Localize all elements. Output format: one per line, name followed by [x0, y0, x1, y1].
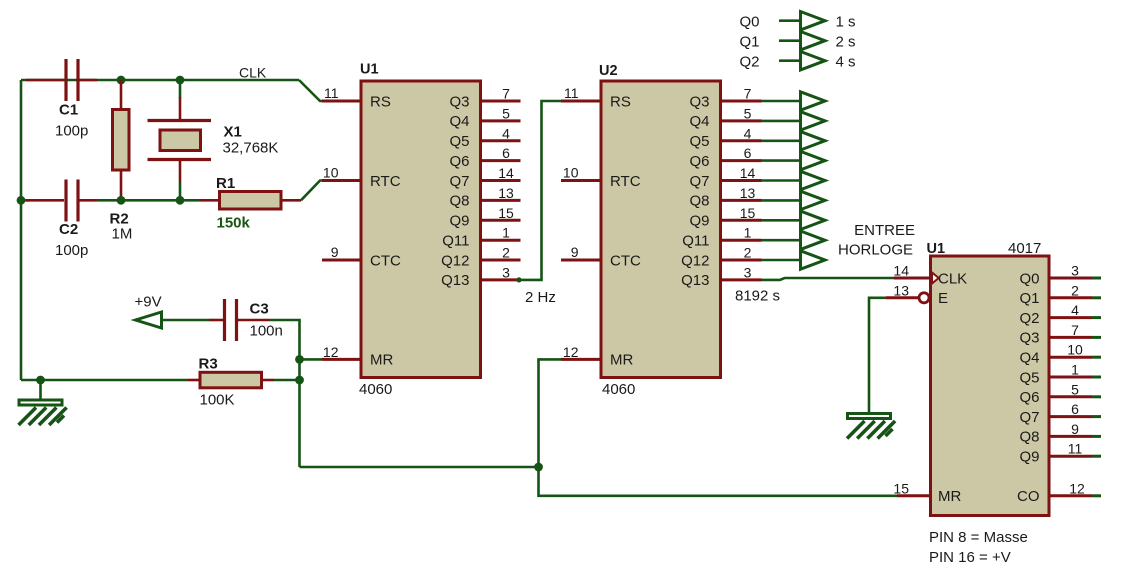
svg-text:Q13: Q13 [441, 272, 469, 289]
svg-text:9: 9 [571, 244, 579, 260]
pin CTC U2 [561, 259, 601, 262]
svg-text:Q5: Q5 [449, 133, 469, 150]
svg-text:Q6: Q6 [449, 153, 469, 170]
wire R2 top lead [120, 80, 123, 110]
wire C3 to MR vertical [269, 320, 300, 467]
svg-text:32,768K: 32,768K [223, 140, 279, 157]
wire X1 bottom lead [179, 181, 182, 200]
pin Q out U1 #15 [481, 219, 521, 222]
pin Q8 4017 [1049, 435, 1092, 438]
svg-text:U1: U1 [360, 62, 379, 78]
pin RS U1 [322, 100, 361, 103]
svg-text:Q4: Q4 [1019, 350, 1039, 367]
svg-text:Q9: Q9 [689, 213, 709, 230]
svg-text:11: 11 [1068, 441, 1083, 457]
svg-text:X1: X1 [224, 124, 242, 141]
pin Q out U2 #13 [721, 199, 762, 202]
svg-text:100p: 100p [55, 242, 88, 259]
svg-text:4: 4 [1071, 302, 1079, 318]
junction left bus / C2 row [17, 196, 26, 205]
svg-text:4060: 4060 [602, 381, 635, 398]
svg-text:14: 14 [893, 263, 909, 279]
svg-text:+9V: +9V [135, 294, 162, 311]
svg-text:13: 13 [893, 282, 909, 298]
wire C3 left lead [209, 319, 223, 322]
IC U1 4060 body [361, 81, 481, 378]
svg-text:7: 7 [1071, 322, 1079, 338]
pin Q out U2 #15 [721, 219, 762, 222]
wire diagonal to pin 10 [301, 181, 326, 201]
wire to U1 MR [300, 358, 323, 361]
svg-text:CTC: CTC [610, 252, 641, 269]
junction bottom bus / R2 [117, 196, 126, 205]
pin RTC U1 [322, 179, 361, 182]
svg-text:Q6: Q6 [689, 153, 709, 170]
wire X1 top lead [179, 80, 182, 98]
svg-text:CLK: CLK [239, 65, 267, 81]
svg-text:C1: C1 [59, 102, 78, 119]
resistor R1 [220, 192, 282, 210]
buffer Q0 [801, 12, 826, 30]
wire stub Q6 4017 [1092, 395, 1101, 398]
pin Q out U2 #6 [721, 159, 762, 162]
svg-text:6: 6 [744, 145, 752, 161]
wire up to U2 MR [539, 359, 562, 467]
svg-text:5: 5 [1071, 381, 1079, 397]
pin RTC U2 [561, 179, 601, 182]
svg-text:1: 1 [744, 225, 752, 241]
wire stub Q4 4017 [1092, 356, 1101, 359]
wire +9V to C3 [162, 319, 210, 322]
svg-text:Q2: Q2 [740, 54, 760, 71]
pin Q out U1 #7 [481, 100, 521, 103]
wire to R1 [180, 199, 200, 202]
svg-text:CO: CO [1017, 488, 1040, 505]
pin Q out U2 #14 [721, 179, 762, 182]
buffer row 4 [801, 171, 826, 189]
wire stub Q9 4017 [1092, 455, 1101, 458]
junction MR U1 [295, 355, 304, 364]
svg-text:15: 15 [498, 205, 514, 221]
buffer row 5 [801, 191, 826, 209]
wire Q13 to U2 RS [521, 101, 562, 280]
svg-text:4 s: 4 s [836, 54, 856, 71]
svg-text:Q12: Q12 [441, 252, 469, 269]
svg-text:Q7: Q7 [1019, 409, 1039, 426]
pin Q2 4017 [1049, 316, 1092, 319]
svg-text:Q8: Q8 [449, 193, 469, 210]
pin Q6 4017 [1049, 395, 1092, 398]
wire to buffer row 6 [762, 219, 801, 222]
svg-text:Q9: Q9 [449, 213, 469, 230]
pin Q out U2 #4 [721, 139, 762, 142]
wire stub Q2 4017 [1092, 316, 1101, 319]
svg-text:1M: 1M [112, 226, 133, 243]
svg-text:Q8: Q8 [689, 193, 709, 210]
buffer Q1 [801, 32, 826, 50]
svg-text:14: 14 [740, 165, 756, 181]
pin Q out U1 #2 [481, 259, 521, 262]
svg-text:15: 15 [893, 480, 909, 496]
svg-text:Q4: Q4 [689, 113, 709, 130]
svg-text:9: 9 [331, 244, 339, 260]
svg-text:2: 2 [1071, 282, 1079, 298]
svg-text:RS: RS [370, 93, 391, 110]
pin CLK 4017 [894, 277, 931, 280]
svg-text:13: 13 [498, 185, 514, 201]
pin CO 4017 [1049, 494, 1092, 497]
svg-text:RS: RS [610, 93, 631, 110]
svg-text:100n: 100n [250, 323, 283, 340]
wire to buffer row 3 [762, 159, 801, 162]
wire end nub Q13 [516, 277, 521, 282]
svg-text:Q1: Q1 [1019, 290, 1039, 307]
junction top bus / X1 [176, 76, 185, 85]
wire stub Q8 4017 [1092, 435, 1101, 438]
wire CLK top bus [21, 79, 299, 82]
wire R2 bottom lead [120, 170, 123, 200]
svg-text:150k: 150k [217, 215, 251, 232]
svg-text:12: 12 [563, 344, 579, 360]
wire stub CO 4017 [1092, 494, 1101, 497]
clock edge marker [932, 273, 939, 284]
svg-text:7: 7 [744, 86, 752, 102]
wire Q2 buffer input [779, 59, 800, 62]
svg-text:100K: 100K [200, 392, 235, 409]
wire C1 right lead [78, 79, 97, 82]
ground left [19, 400, 67, 425]
svg-text:100p: 100p [55, 123, 88, 140]
wire left vertical [20, 80, 23, 380]
svg-text:4: 4 [502, 125, 510, 141]
svg-text:Q7: Q7 [689, 173, 709, 190]
svg-text:Q3: Q3 [689, 93, 709, 110]
buffer row 1 [801, 112, 826, 130]
svg-text:3: 3 [502, 264, 510, 280]
pin Q0 4017 [1049, 277, 1092, 280]
pin Q7 4017 [1049, 415, 1092, 418]
svg-text:Q11: Q11 [442, 233, 469, 250]
wire E to ground [869, 298, 886, 414]
wire stub Q3 4017 [1092, 336, 1101, 339]
pin Q1 4017 [1049, 296, 1092, 299]
pin MR U1 [322, 358, 361, 361]
svg-text:Q5: Q5 [689, 133, 709, 150]
wire diagonal to pin 11 [299, 80, 326, 101]
wire C2 right lead [78, 199, 97, 202]
svg-text:2: 2 [744, 245, 752, 261]
wire R3 to vertical [274, 379, 300, 382]
svg-text:2: 2 [502, 245, 510, 261]
svg-text:3: 3 [744, 264, 752, 280]
wire to buffer row 5 [762, 199, 801, 202]
wire bottom bus [97, 199, 180, 202]
buffer row 8 [801, 251, 826, 269]
capacitor C2 [66, 180, 78, 222]
wire C3 right lead [237, 319, 270, 322]
pin E 4017 [886, 296, 919, 299]
svg-text:R3: R3 [199, 356, 218, 373]
wire stub Q7 4017 [1092, 415, 1101, 418]
pin Q out U2 #7 [721, 100, 762, 103]
svg-text:12: 12 [323, 344, 339, 360]
svg-text:Q3: Q3 [1019, 330, 1039, 347]
svg-text:4017: 4017 [1008, 240, 1041, 257]
svg-text:Q0: Q0 [1019, 270, 1039, 287]
wire stub Q0 4017 [1092, 277, 1101, 280]
svg-text:14: 14 [498, 165, 514, 181]
U1 pin names left [370, 93, 401, 368]
4017 pin names right [1017, 270, 1040, 505]
capacitor C1 [66, 59, 78, 101]
wire to buffer row 0 [762, 100, 801, 103]
pin X1 top [179, 97, 182, 121]
U2 pin names left [610, 93, 641, 368]
svg-text:13: 13 [740, 185, 756, 201]
buffer row 2 [801, 132, 826, 150]
svg-text:12: 12 [1069, 480, 1085, 496]
svg-text:2 Hz: 2 Hz [525, 289, 556, 306]
pin Q5 4017 [1049, 376, 1092, 379]
svg-text:Q6: Q6 [1019, 389, 1039, 406]
wire down to 4017 MR [539, 467, 898, 496]
svg-text:4: 4 [744, 125, 752, 141]
svg-text:PIN 16 = +V: PIN 16 = +V [929, 549, 1011, 566]
svg-text:15: 15 [740, 205, 756, 221]
svg-text:Q5: Q5 [1019, 369, 1039, 386]
svg-text:RTC: RTC [610, 173, 641, 190]
svg-text:2 s: 2 s [836, 34, 856, 51]
svg-text:MR: MR [938, 488, 961, 505]
svg-text:Q11: Q11 [682, 233, 709, 250]
svg-text:1: 1 [1071, 362, 1079, 378]
IC U1 4017 body [931, 256, 1050, 516]
pin Q3 4017 [1049, 336, 1092, 339]
pin Q out U1 #6 [481, 159, 521, 162]
inverter bubble E [919, 293, 929, 303]
4017 pin names left [938, 270, 967, 505]
svg-text:U2: U2 [599, 63, 618, 79]
svg-text:9: 9 [1071, 421, 1079, 437]
pin X1 bottom [179, 160, 182, 182]
resistor R3 [200, 372, 262, 388]
svg-text:Q9: Q9 [1019, 449, 1039, 466]
wire to buffer row 4 [762, 179, 801, 182]
pin Q out U1 #14 [481, 179, 521, 182]
svg-text:E: E [938, 290, 948, 307]
buffer row 3 [801, 151, 826, 169]
ground right [847, 414, 895, 439]
pin Q out U2 #2 [721, 259, 762, 262]
pin Q4 4017 [1049, 356, 1092, 359]
svg-text:RTC: RTC [370, 173, 401, 190]
svg-text:3: 3 [1071, 263, 1079, 279]
wire to buffer row 1 [762, 120, 801, 123]
svg-text:1: 1 [502, 225, 510, 241]
svg-text:ENTREE: ENTREE [854, 222, 915, 239]
svg-text:PIN 8 = Masse: PIN 8 = Masse [929, 529, 1028, 546]
pin Q out U1 #1 [481, 239, 521, 242]
svg-text:R1: R1 [216, 175, 235, 192]
pin Q out U1 #5 [481, 119, 521, 122]
svg-text:HORLOGE: HORLOGE [838, 242, 913, 259]
wire to buffer row 7 [762, 239, 801, 242]
wire ground drop [39, 380, 42, 400]
svg-text:5: 5 [744, 105, 752, 121]
wire R1 right lead [281, 199, 301, 202]
svg-text:Q0: Q0 [740, 14, 760, 31]
svg-text:Q4: Q4 [449, 113, 469, 130]
power symbol +9V [136, 312, 162, 328]
buffer row 0 [801, 92, 826, 110]
pin MR U2 [561, 358, 601, 361]
IC U2 4060 body [601, 81, 721, 378]
wire MR bus horizontal [300, 466, 539, 469]
wire R1 left lead [200, 199, 220, 202]
pin CTC U1 [322, 259, 361, 262]
pin Q out U2 #1 [721, 239, 762, 242]
wire at C2 junction [21, 199, 29, 202]
svg-text:Q1: Q1 [740, 34, 760, 51]
pin Q out U1 #3 [481, 278, 521, 281]
svg-text:1 s: 1 s [836, 14, 856, 31]
svg-text:CTC: CTC [370, 252, 401, 269]
svg-text:10: 10 [563, 165, 579, 181]
wire ground bus to R3 [21, 379, 188, 382]
U1 pin names right [441, 93, 469, 289]
junction top bus / R2 [117, 76, 126, 85]
U2 pin names right [681, 93, 709, 289]
crystal X1 [148, 121, 212, 160]
capacitor C3 [225, 299, 237, 341]
wire C2 left lead [26, 199, 64, 202]
svg-text:11: 11 [564, 85, 579, 101]
svg-text:4060: 4060 [359, 381, 392, 398]
svg-text:6: 6 [1071, 401, 1079, 417]
svg-text:CLK: CLK [938, 270, 967, 287]
wire Q1 buffer input [779, 39, 800, 42]
junction bottom bus / X1 [176, 196, 185, 205]
pin Q out U1 #4 [481, 139, 521, 142]
pin Q9 4017 [1049, 455, 1092, 458]
pin Q out U2 #5 [721, 119, 762, 122]
svg-text:10: 10 [1067, 342, 1083, 358]
svg-text:10: 10 [323, 165, 339, 181]
svg-text:Q13: Q13 [681, 272, 709, 289]
pin Q out U2 #3 [721, 278, 762, 281]
svg-text:Q8: Q8 [1019, 429, 1039, 446]
wire to buffer row 8 [762, 259, 801, 262]
buffer row 7 [801, 231, 826, 249]
svg-text:Q3: Q3 [449, 93, 469, 110]
pin MR 4017 [897, 494, 931, 497]
svg-text:U1: U1 [927, 241, 946, 257]
svg-text:11: 11 [324, 85, 339, 101]
svg-text:C3: C3 [250, 301, 269, 318]
wire C1 left lead [26, 79, 64, 82]
junction R3 / vertical [295, 376, 304, 385]
svg-text:Q12: Q12 [681, 252, 709, 269]
svg-text:7: 7 [502, 86, 510, 102]
svg-text:5: 5 [502, 105, 510, 121]
svg-text:Q2: Q2 [1019, 310, 1039, 327]
svg-text:C2: C2 [59, 221, 78, 238]
pin Q out U1 #13 [481, 199, 521, 202]
wire Q0 buffer input [779, 19, 800, 22]
resistor R2 [113, 110, 130, 171]
pin RS U2 [561, 100, 601, 103]
junction ground tap [36, 376, 45, 385]
svg-text:MR: MR [610, 352, 633, 369]
wire stub Q1 4017 [1092, 296, 1101, 299]
wire Q13 U2 to 4017 CLK [762, 278, 896, 280]
buffer row 6 [801, 211, 826, 229]
svg-text:MR: MR [370, 352, 393, 369]
svg-text:Q7: Q7 [449, 173, 469, 190]
svg-text:8192 s: 8192 s [735, 288, 780, 305]
svg-text:6: 6 [502, 145, 510, 161]
wire R3 left lead [188, 379, 200, 382]
wire to buffer row 2 [762, 140, 801, 143]
wire R3 right lead [262, 379, 275, 382]
wire stub Q5 4017 [1092, 376, 1101, 379]
junction MR bus [534, 463, 543, 472]
buffer Q2 [801, 52, 826, 70]
